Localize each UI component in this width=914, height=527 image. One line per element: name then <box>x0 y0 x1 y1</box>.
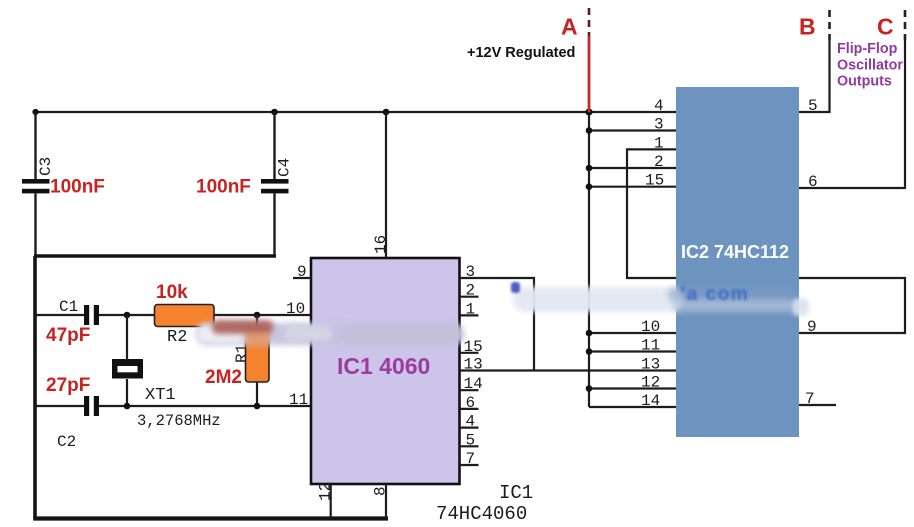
pin label IC2-3 <box>654 116 664 134</box>
pin label IC1-14 <box>464 375 483 393</box>
svg-text:R1: R1 <box>233 344 251 363</box>
op IC1: body <box>311 258 460 484</box>
pin label IC1-5 <box>466 431 476 449</box>
label B <box>799 14 816 40</box>
svg-text:6: 6 <box>466 394 476 412</box>
pin stub IC1-4 <box>460 427 479 429</box>
pin label IC1-2 <box>466 282 476 300</box>
pin label IC2-5 <box>808 97 818 115</box>
svg-text:14: 14 <box>464 375 483 393</box>
wire: IC2 pin12 row <box>589 387 676 389</box>
label C4 <box>276 158 294 177</box>
wire: XT1 branch <box>126 315 128 406</box>
svg-text:13: 13 <box>641 356 660 374</box>
watermark strip over IC2 row <box>511 282 809 316</box>
label C2 <box>57 433 76 451</box>
svg-text:100nF: 100nF <box>50 177 105 198</box>
pin label IC2-9 <box>807 318 817 336</box>
value 3,2768MHz <box>137 412 221 430</box>
svg-text:7: 7 <box>466 450 476 468</box>
node: C1-XT1 junction <box>124 312 131 319</box>
pin label IC2-13 <box>641 356 660 374</box>
svg-text:C1: C1 <box>59 298 78 316</box>
node: A rail pin10 <box>586 330 593 337</box>
wire: IC1 pin12 drop <box>330 484 332 518</box>
svg-text:14: 14 <box>641 392 660 410</box>
label IC2 74HC112 <box>681 242 789 262</box>
svg-text:IC1: IC1 <box>499 482 533 504</box>
label Flip-Flop Oscillator Outputs <box>837 41 903 90</box>
node: A rail pin15 <box>586 183 593 190</box>
pin label IC2-11 <box>641 337 660 355</box>
capacitor C3 <box>22 179 50 193</box>
wire: IC2 pin3 row <box>589 129 676 131</box>
svg-text:27pF: 27pF <box>46 375 90 396</box>
pin label IC2-12 <box>641 374 660 392</box>
svg-text:12: 12 <box>641 374 660 392</box>
label C1 <box>59 298 78 316</box>
wire: IC2 pin11 row <box>589 350 676 352</box>
svg-text:A: A <box>561 14 578 40</box>
svg-text:1: 1 <box>466 300 476 318</box>
svg-text:100nF: 100nF <box>196 177 251 198</box>
value 100nF (C3) <box>50 177 105 198</box>
test point A: dashed stub <box>588 8 591 38</box>
node: A rail pin3 <box>586 127 593 134</box>
value 27pF <box>46 375 90 396</box>
svg-text:4: 4 <box>654 97 664 115</box>
capacitor C1 <box>84 305 99 325</box>
wire: A rail vertical (12V distribution) <box>588 112 590 407</box>
node: R1-bottom junction <box>254 403 261 410</box>
svg-text:10k: 10k <box>156 282 188 303</box>
svg-text:15: 15 <box>645 172 664 190</box>
svg-text:Oscillator: Oscillator <box>837 58 903 74</box>
node: A rail pin2 <box>586 165 593 172</box>
pin label 11 <box>289 391 308 409</box>
svg-text:IC2 74HC112: IC2 74HC112 <box>681 242 789 262</box>
wire: C1 row (XT1 top row to IC1 pin 10) <box>37 314 312 316</box>
svg-text:8: 8 <box>372 486 390 496</box>
wire: C3 branch vertical <box>34 112 36 257</box>
node: top rail at IC1 pin16 <box>383 109 390 116</box>
pin label IC2-7 <box>805 390 815 408</box>
label C3 <box>37 157 55 176</box>
svg-text:+12V Regulated: +12V Regulated <box>467 45 575 61</box>
pin label 9 <box>297 263 307 281</box>
svg-text:9: 9 <box>807 318 817 336</box>
wire: IC2 pin9 feedback loop <box>799 278 905 333</box>
label +12V Regulated <box>467 45 575 61</box>
wire: IC2 pin14 row <box>589 406 676 408</box>
svg-text:16: 16 <box>372 235 390 254</box>
pin stub IC1-1 <box>460 314 479 316</box>
pin label IC2-10 <box>641 318 660 336</box>
node: C2-XT1 junction <box>124 403 131 410</box>
svg-text:10: 10 <box>641 318 660 336</box>
wire: +12V top rail <box>34 111 676 113</box>
wire: B drop <box>828 40 830 113</box>
wire: IC1 pin13 to IC2 pin13 <box>460 369 677 371</box>
pin stub IC1-6 <box>460 408 479 410</box>
value 100nF (C4) <box>196 177 251 198</box>
wire: IC1 pin16 drop <box>385 112 387 258</box>
pin label IC1-3 <box>466 263 476 281</box>
pin label IC2-4 <box>654 97 664 115</box>
label IC1 4060 <box>337 353 430 379</box>
pin label 10 <box>286 300 305 318</box>
svg-text:C: C <box>877 14 894 40</box>
svg-text:3,2768MHz: 3,2768MHz <box>137 412 221 430</box>
wire: IC2 pin6 to C <box>799 187 905 189</box>
svg-text:C3: C3 <box>37 157 55 176</box>
node: top rail at test point A <box>585 108 592 115</box>
label XT1 <box>145 386 176 405</box>
test point A: red lead <box>588 36 591 112</box>
pin label IC1-15 <box>464 338 483 356</box>
svg-text:XT1: XT1 <box>145 386 176 405</box>
wire: C2 row (XT1 bottom row to IC1 pin 11) <box>37 405 312 407</box>
pin label IC2-15 <box>645 172 664 190</box>
pin label 12 <box>317 482 335 501</box>
label R1 <box>233 344 251 363</box>
wire: IC2 pin1 loop <box>627 149 676 278</box>
resistor R1 <box>246 330 270 382</box>
pin label IC2-14 <box>641 392 660 410</box>
svg-text:12: 12 <box>317 482 335 501</box>
svg-text:Outputs: Outputs <box>837 74 892 90</box>
svg-text:7: 7 <box>805 390 815 408</box>
capacitor C2 <box>84 396 99 416</box>
svg-text:B: B <box>799 14 816 40</box>
wire: C4 branch vertical <box>273 112 275 257</box>
svg-text:2: 2 <box>466 282 476 300</box>
wire: IC2 pin5 to B <box>799 111 830 113</box>
svg-text:10: 10 <box>286 300 305 318</box>
pin label IC1-4 <box>466 413 476 431</box>
label A <box>561 14 578 40</box>
wire: left vertical rail <box>33 256 37 518</box>
svg-text:5: 5 <box>466 431 476 449</box>
pin stub IC1-14 <box>460 389 479 391</box>
pin stub IC1-9 <box>293 277 311 279</box>
label 74HC4060 <box>436 503 527 525</box>
value 47pF <box>46 325 90 346</box>
node: top rail at C3 <box>32 109 38 115</box>
node: top rail at C4 <box>271 109 278 116</box>
wire: IC2 pin10 row <box>589 332 676 334</box>
svg-text:11: 11 <box>289 391 308 409</box>
pin label IC1-7 <box>466 450 476 468</box>
svg-text:ʼa com: ʼa com <box>680 284 749 305</box>
svg-text:4: 4 <box>466 413 476 431</box>
label C <box>877 14 894 40</box>
svg-text:47pF: 47pF <box>46 325 90 346</box>
pin label IC1-6 <box>466 394 476 412</box>
op IC2: body 74HC112 <box>676 87 799 437</box>
wire: IC1 pin3 stub and net to IC2 pin13 column <box>460 278 535 371</box>
svg-text:6: 6 <box>808 173 818 191</box>
wire: IC1 pin8 drop <box>385 484 387 518</box>
crystal XT1 <box>112 359 143 379</box>
svg-text:11: 11 <box>641 337 660 355</box>
pin label IC1-13 <box>464 356 483 374</box>
svg-text:13: 13 <box>464 356 483 374</box>
wire: C3-C4 bottom bus <box>34 254 276 257</box>
svg-text:3: 3 <box>466 263 476 281</box>
pin label IC1-1 <box>466 300 476 318</box>
svg-text:9: 9 <box>297 263 307 281</box>
pin stub IC1-15 <box>460 352 479 354</box>
label R2 <box>167 328 187 347</box>
svg-text:5: 5 <box>808 97 818 115</box>
pin label 8 <box>372 486 390 496</box>
svg-text:C4: C4 <box>276 158 294 177</box>
watermark strip over R1/R2 row <box>196 320 464 346</box>
wire: C drop <box>904 40 906 189</box>
resistor R2 <box>155 305 215 327</box>
svg-text:2M2: 2M2 <box>205 367 242 388</box>
pin stub IC1-2 <box>460 296 479 298</box>
value 10k <box>156 282 188 303</box>
svg-text:15: 15 <box>464 338 483 356</box>
wire: IC2 pin15 row <box>589 186 676 188</box>
svg-text:C2: C2 <box>57 433 76 451</box>
wire: IC2 pin2 row <box>589 167 676 169</box>
node: A rail pin11 <box>586 348 593 355</box>
svg-text:Flip-Flop: Flip-Flop <box>837 41 898 57</box>
pin label IC2-2 <box>654 153 664 171</box>
pin label IC2-6 <box>808 173 818 191</box>
pin stub IC2-7 <box>799 404 836 406</box>
value 2M2 <box>205 367 242 388</box>
svg-text:IC1 4060: IC1 4060 <box>337 353 430 379</box>
capacitor C4 <box>261 179 289 193</box>
pin label 16 <box>372 235 390 254</box>
wire: R1 branch <box>256 315 258 406</box>
node: A rail pin12 <box>586 385 593 392</box>
label IC1 (below) <box>499 482 533 504</box>
pin stub IC1-7 <box>460 464 479 466</box>
wire: bottom bus <box>33 516 388 520</box>
node: R2-R1 junction <box>254 312 261 319</box>
svg-text:3: 3 <box>654 116 664 134</box>
svg-text:R2: R2 <box>167 328 187 347</box>
test point C: dashed stub <box>904 10 907 40</box>
svg-text:2: 2 <box>654 153 664 171</box>
svg-text:74HC4060: 74HC4060 <box>436 503 527 525</box>
svg-text:1: 1 <box>654 134 664 152</box>
pin label IC2-1 <box>654 134 664 152</box>
test point B: dashed stub <box>828 10 831 40</box>
pin stub IC1-5 <box>460 445 479 447</box>
